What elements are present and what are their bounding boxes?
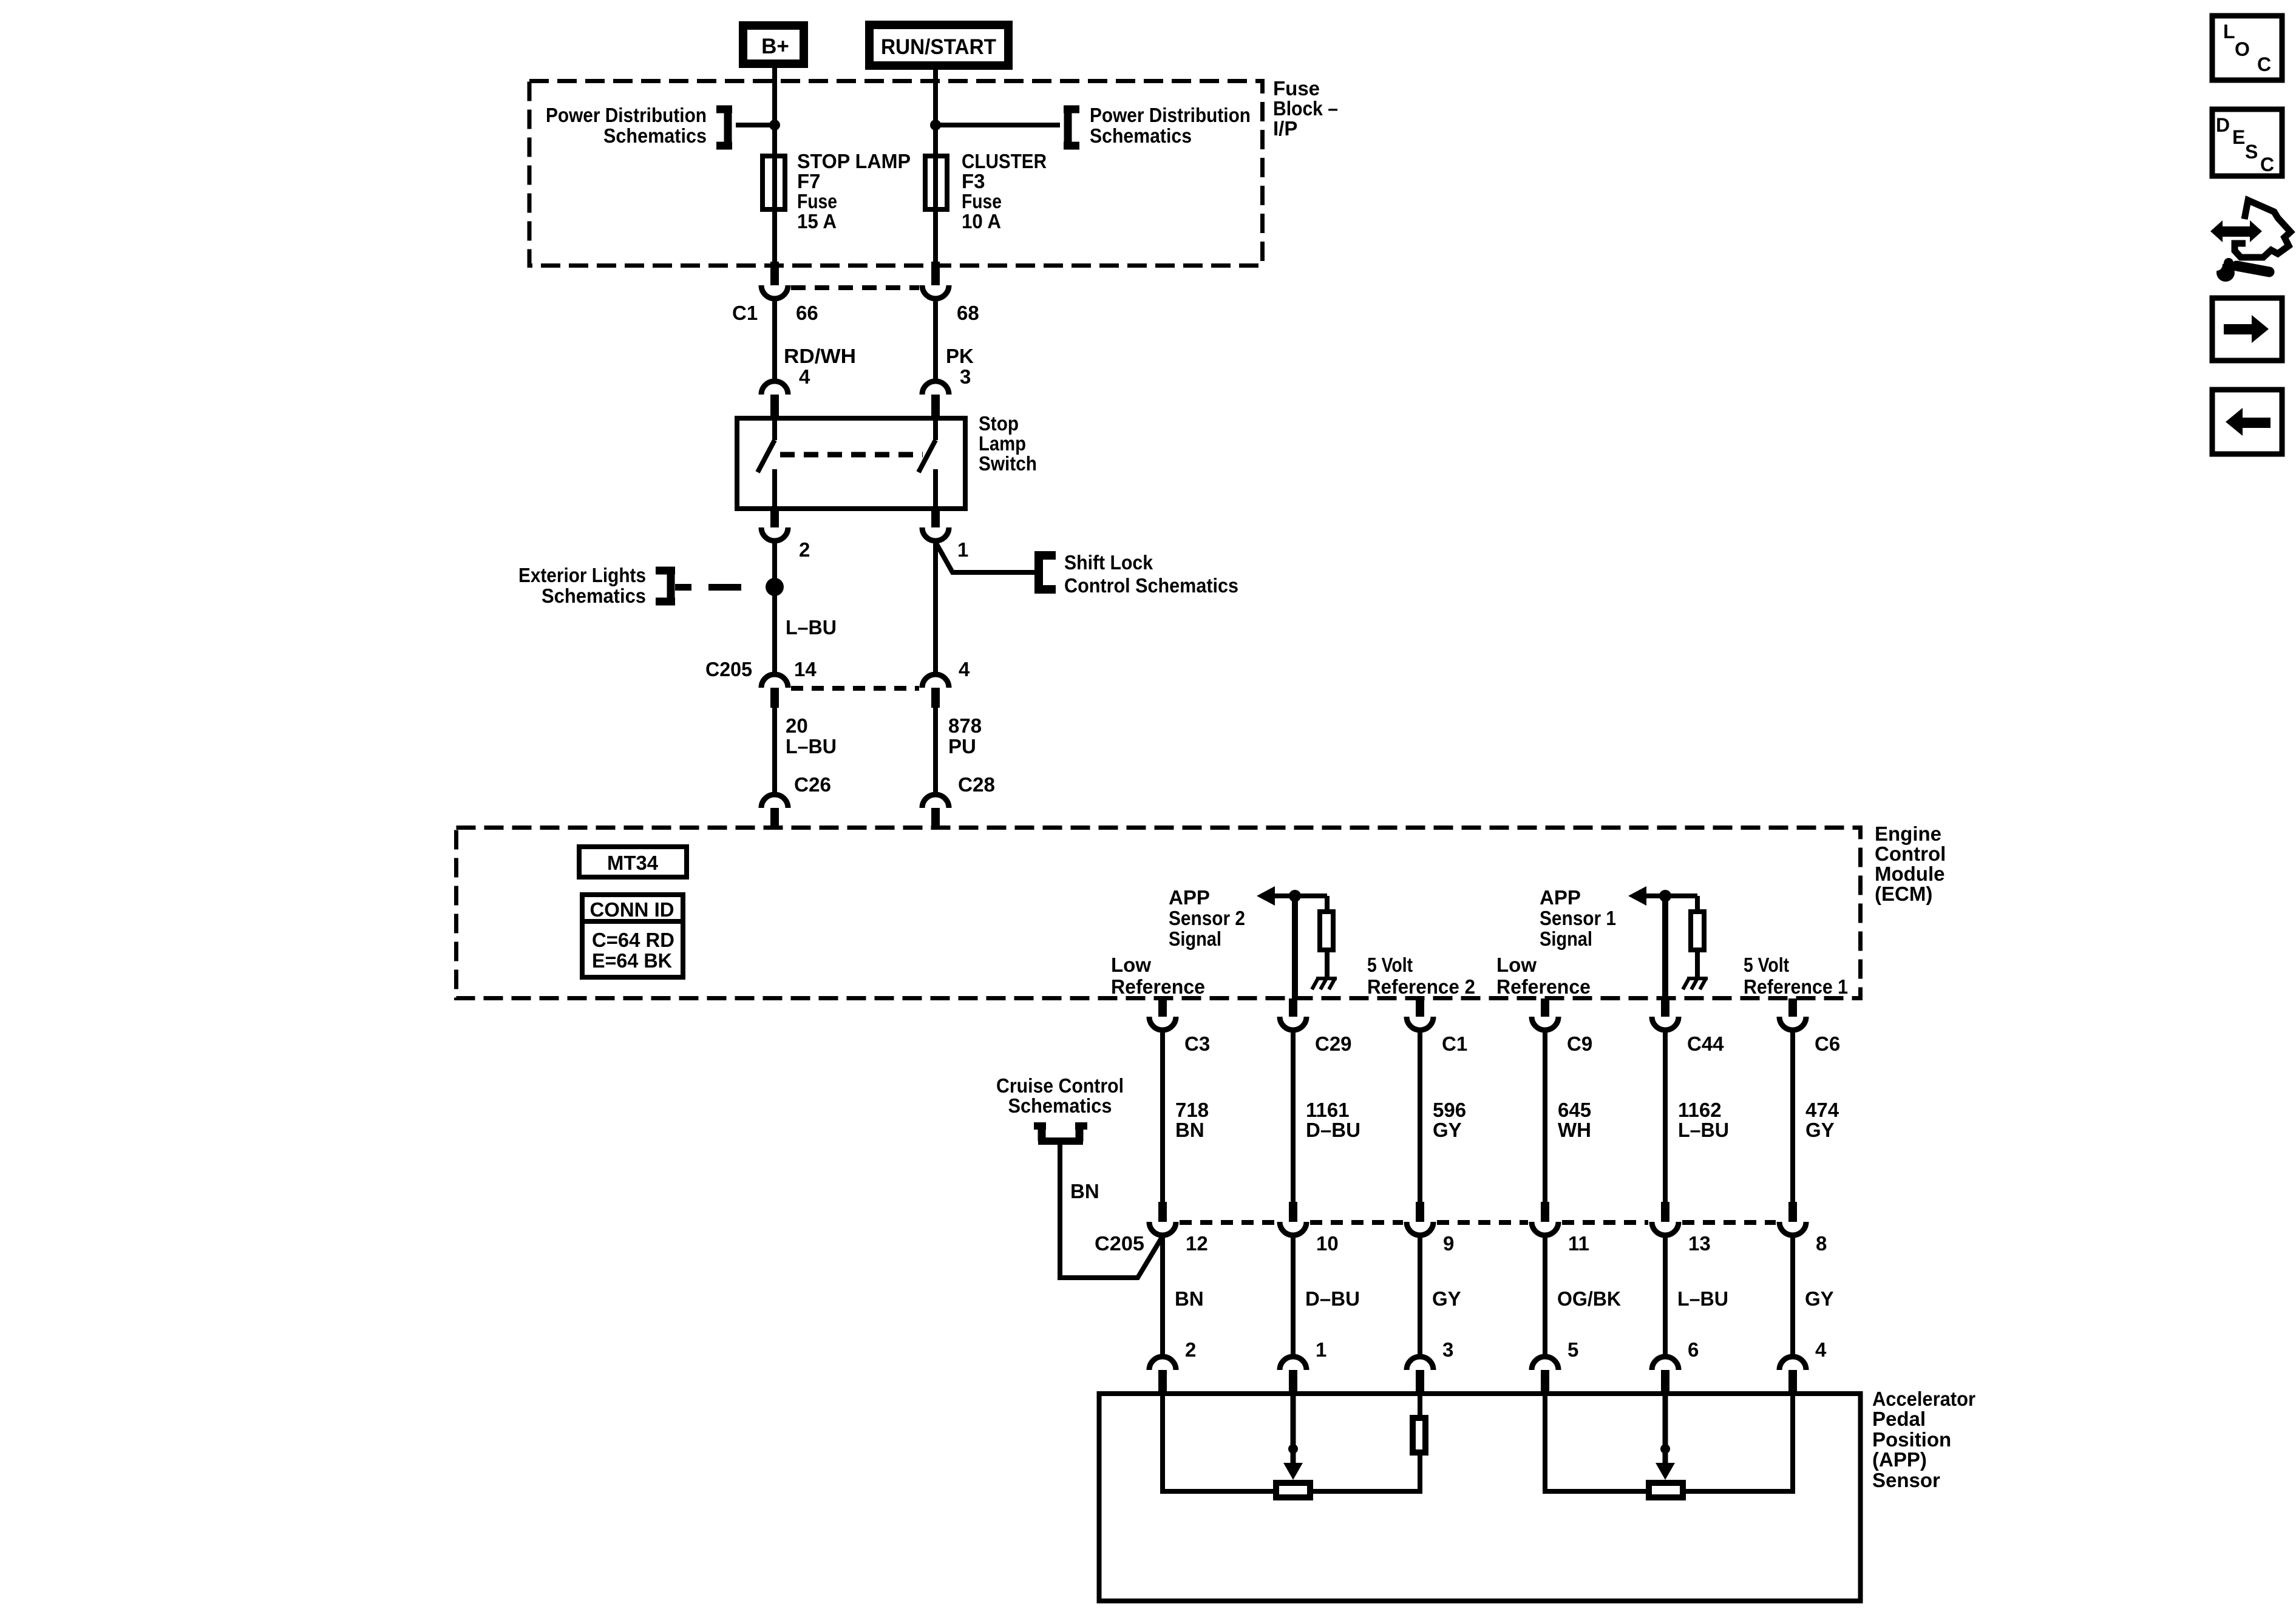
svg-text:GY: GY	[1805, 1119, 1835, 1141]
resistor APP	[1413, 1418, 1425, 1453]
connector C1 pin 66	[770, 262, 779, 285]
connector APP pin 5	[1532, 1357, 1558, 1370]
svg-text:2: 2	[1185, 1338, 1196, 1361]
svg-text:474: 474	[1805, 1099, 1839, 1121]
wire 1161 D–BU	[1291, 1030, 1296, 1204]
svg-text:Sensor 2: Sensor 2	[1169, 907, 1245, 929]
svg-text:L–BU: L–BU	[786, 616, 837, 639]
svg-text:GY: GY	[1805, 1287, 1834, 1310]
connector ECM C1	[1416, 998, 1424, 1017]
svg-text:Signal: Signal	[1540, 927, 1592, 950]
svg-text:4: 4	[799, 365, 810, 388]
svg-text:CLUSTER: CLUSTER	[962, 150, 1047, 172]
switch contact left	[772, 469, 777, 511]
wire 68 down	[933, 298, 938, 382]
wire 596 GY	[1418, 1030, 1422, 1204]
wire arrow to resistor branch	[1266, 893, 1327, 898]
wire 645 WH	[1543, 1030, 1547, 1204]
svg-text:8: 8	[1816, 1232, 1827, 1255]
connector ECM C29	[1289, 998, 1297, 1017]
wire GY to APP sensor	[1418, 1235, 1422, 1358]
connector C205 pin 9	[1416, 1202, 1424, 1222]
svg-text:F3: F3	[962, 170, 985, 192]
wiper arrow right	[1656, 1463, 1675, 1480]
svg-text:12: 12	[1186, 1232, 1208, 1255]
connector C28	[922, 795, 949, 808]
junction dot sensor 2	[1289, 890, 1301, 902]
bracket Power Distribution right	[1064, 106, 1079, 114]
svg-text:Low: Low	[1496, 954, 1537, 976]
svg-text:Fuse: Fuse	[797, 190, 837, 212]
inline connector dashed line C205 upper	[791, 686, 919, 691]
svg-text:596: 596	[1433, 1099, 1466, 1121]
arrow APP sensor 2	[1257, 886, 1275, 906]
svg-text:20: 20	[786, 714, 808, 737]
svg-text:WH: WH	[1558, 1119, 1591, 1141]
svg-text:4: 4	[1815, 1338, 1827, 1361]
svg-text:Accelerator: Accelerator	[1872, 1388, 1975, 1410]
dash line to exterior dot	[675, 584, 691, 591]
svg-text:(APP): (APP)	[1872, 1448, 1927, 1471]
connector ECM C9	[1541, 998, 1549, 1017]
svg-text:9: 9	[1443, 1232, 1454, 1255]
svg-text:D–BU: D–BU	[1305, 1287, 1360, 1310]
resistor ECM right	[1691, 912, 1704, 950]
svg-text:15 A: 15 A	[797, 210, 837, 232]
connector APP pin 4	[1779, 1357, 1806, 1370]
svg-text:Control Schematics: Control Schematics	[1064, 574, 1238, 597]
connector C205 pin 4	[922, 674, 949, 688]
svg-text:L–BU: L–BU	[786, 735, 837, 758]
junction dot sensor 1	[1659, 890, 1671, 902]
wire to shift lock	[936, 542, 1036, 572]
connector C205 pin 8	[1788, 1202, 1797, 1222]
svg-text:L–BU: L–BU	[1678, 1119, 1729, 1141]
icon hand double arrow	[2223, 226, 2250, 237]
switch blade left	[758, 440, 775, 472]
svg-text:BN: BN	[1175, 1119, 1204, 1141]
svg-text:878: 878	[948, 714, 982, 737]
junction dot left	[769, 120, 780, 131]
ground symbol right	[1687, 977, 1708, 980]
wire 66 down	[772, 298, 777, 382]
svg-text:OG/BK: OG/BK	[1557, 1287, 1621, 1310]
svg-text:Control: Control	[1875, 842, 1946, 865]
svg-text:CONN ID: CONN ID	[590, 898, 674, 921]
svg-text:C: C	[2260, 154, 2274, 175]
svg-text:11: 11	[1568, 1232, 1589, 1255]
svg-text:Schematics: Schematics	[603, 124, 707, 147]
terminal RUN/START box	[869, 25, 1008, 66]
connector ECM C3	[1158, 998, 1167, 1017]
svg-text:Fuse: Fuse	[1273, 77, 1320, 100]
svg-text:1162: 1162	[1678, 1099, 1722, 1121]
svg-text:13: 13	[1688, 1232, 1711, 1255]
wire D–BU to APP sensor	[1291, 1235, 1296, 1358]
svg-text:E: E	[2232, 126, 2245, 148]
svg-text:(ECM): (ECM)	[1875, 883, 1932, 905]
svg-text:Reference: Reference	[1111, 975, 1205, 998]
wire pin1 down	[933, 541, 938, 675]
svg-text:B+: B+	[761, 35, 789, 58]
wire APP pin2 inside	[1163, 1394, 1276, 1491]
connector C205 pin 10	[1289, 1202, 1297, 1222]
svg-text:C205: C205	[705, 658, 752, 680]
inline connector dashed segment	[1682, 1220, 1776, 1225]
svg-text:Pedal: Pedal	[1872, 1408, 1926, 1430]
stop lamp switch box	[737, 418, 965, 509]
inline connector dashed segment	[1310, 1220, 1403, 1225]
connector APP pin 3	[1407, 1357, 1433, 1370]
fuse block dashed box	[529, 81, 1263, 266]
svg-text:Reference 1: Reference 1	[1744, 975, 1848, 998]
resistor ECM left	[1320, 912, 1333, 950]
svg-text:2: 2	[799, 538, 810, 561]
icon left arrow box	[2212, 390, 2282, 454]
svg-text:STOP LAMP: STOP LAMP	[797, 150, 911, 172]
connector C26	[761, 795, 788, 808]
svg-text:718: 718	[1175, 1099, 1209, 1121]
wire 1162 L–BU	[1663, 1030, 1668, 1204]
connector C1 pin 68	[931, 262, 940, 285]
svg-text:C28: C28	[958, 773, 995, 796]
svg-text:C1: C1	[1442, 1032, 1467, 1055]
svg-text:APP: APP	[1169, 886, 1210, 909]
switch pole left wire	[772, 418, 777, 440]
svg-text:I/P: I/P	[1273, 117, 1297, 140]
svg-text:APP: APP	[1540, 886, 1581, 909]
wiper dot left	[1288, 1444, 1298, 1454]
inline connector dashed segment	[1180, 1220, 1276, 1225]
svg-text:GY: GY	[1433, 1119, 1462, 1141]
connector C205 pin 13	[1661, 1202, 1669, 1222]
wire to Power Distribution left	[736, 123, 775, 127]
junction dot right	[930, 120, 941, 131]
connector pin 2	[770, 511, 779, 527]
svg-text:D–BU: D–BU	[1306, 1119, 1360, 1141]
icon right arrow box	[2212, 298, 2282, 361]
svg-text:GY: GY	[1432, 1287, 1461, 1310]
svg-text:C44: C44	[1687, 1032, 1724, 1055]
svg-text:3: 3	[960, 365, 971, 388]
connector ECM C44	[1661, 998, 1669, 1017]
wire resistor to ground left	[1325, 950, 1330, 978]
wire L–BU to APP sensor	[1663, 1235, 1668, 1358]
ECM dashed box	[457, 828, 1861, 998]
connector APP pin 1	[1280, 1357, 1306, 1370]
icon hand outline	[2235, 200, 2291, 257]
wire resistor down	[1418, 1453, 1422, 1494]
wire F7 to connector C1-66	[772, 209, 777, 265]
svg-text:4: 4	[959, 658, 970, 680]
svg-text:BN: BN	[1175, 1287, 1204, 1310]
svg-text:Lamp: Lamp	[979, 432, 1026, 455]
svg-text:1: 1	[957, 538, 968, 561]
wiper arrow left	[1283, 1463, 1303, 1480]
svg-text:MT34: MT34	[607, 852, 659, 874]
svg-text:RD/WH: RD/WH	[784, 345, 856, 367]
wire BN to APP sensor	[1160, 1235, 1165, 1358]
inline connector dashed segment	[1562, 1220, 1648, 1225]
connector C205 pin 12	[1158, 1202, 1167, 1222]
svg-text:C3: C3	[1184, 1032, 1210, 1055]
svg-text:3: 3	[1442, 1338, 1453, 1361]
terminal B+ box	[743, 25, 804, 64]
icon LOC box	[2212, 16, 2282, 80]
wire B+ down to fuse F7	[772, 68, 777, 156]
wire F3 to connector C1-68	[933, 209, 938, 265]
inline connector dashed segment	[1437, 1220, 1528, 1225]
switch pole right wire	[933, 418, 938, 440]
svg-text:E=64 BK: E=64 BK	[592, 949, 672, 972]
svg-text:Schematics: Schematics	[1008, 1094, 1112, 1117]
svg-text:RUN/START: RUN/START	[881, 35, 996, 59]
svg-text:L: L	[2223, 21, 2235, 42]
wire arrow to resistor branch right	[1637, 893, 1697, 898]
wire APP pin5 inside	[1545, 1394, 1649, 1491]
svg-text:Position: Position	[1872, 1428, 1951, 1451]
fuse F7	[763, 156, 785, 209]
connector pin 1	[931, 511, 940, 527]
bracket Power Distribution left	[716, 106, 732, 114]
icon wrench	[2237, 266, 2269, 272]
svg-text:Stop: Stop	[979, 412, 1019, 435]
svg-text:C205: C205	[1095, 1232, 1144, 1255]
arrow APP sensor 1	[1628, 886, 1646, 906]
svg-text:Schematics: Schematics	[1090, 124, 1192, 147]
svg-text:PK: PK	[946, 345, 974, 367]
wire RUN/START down to fuse F3	[933, 70, 938, 156]
icon DESC box	[2212, 109, 2282, 176]
connector pin 4 switch	[761, 381, 788, 395]
wire APP pin3 inside	[1418, 1394, 1422, 1420]
connector ECM C6	[1788, 998, 1797, 1017]
svg-text:C29: C29	[1315, 1032, 1352, 1055]
svg-text:O: O	[2235, 38, 2250, 60]
svg-text:BN: BN	[1070, 1180, 1099, 1202]
bracket Shift Lock	[1034, 551, 1056, 560]
svg-text:1: 1	[1316, 1338, 1326, 1361]
svg-text:Shift Lock: Shift Lock	[1064, 551, 1153, 574]
svg-text:5: 5	[1567, 1338, 1578, 1361]
svg-text:L–BU: L–BU	[1677, 1287, 1728, 1310]
svg-text:5 Volt: 5 Volt	[1367, 954, 1413, 976]
bracket Cruise Control	[1034, 1122, 1046, 1130]
svg-text:PU: PU	[948, 735, 976, 758]
junction dot exterior lights	[766, 578, 784, 596]
wire sensor2 signal down	[1292, 896, 1298, 1000]
svg-text:C6: C6	[1815, 1032, 1840, 1055]
svg-text:10: 10	[1316, 1232, 1339, 1255]
switch dashed link	[780, 452, 923, 458]
wire 20 L-BU	[772, 708, 777, 795]
wire OG/BK to APP sensor	[1543, 1235, 1547, 1358]
connector APP pin 6	[1652, 1357, 1679, 1370]
svg-text:D: D	[2216, 114, 2230, 136]
ground symbol left	[1316, 977, 1337, 980]
wire pin2 down	[772, 541, 777, 675]
switch contact right	[933, 469, 938, 511]
fuse F3	[925, 156, 947, 209]
switch blade right	[919, 440, 936, 472]
wire GY to APP sensor	[1790, 1235, 1795, 1358]
svg-text:5 Volt: 5 Volt	[1744, 954, 1789, 976]
svg-text:S: S	[2245, 141, 2258, 163]
svg-text:C: C	[2257, 53, 2271, 75]
svg-text:C=64 RD: C=64 RD	[592, 929, 674, 951]
connector C205 pin 14	[761, 674, 788, 688]
wire cruise control to C205	[1060, 1145, 1163, 1278]
svg-text:68: 68	[957, 302, 979, 324]
svg-text:645: 645	[1558, 1099, 1591, 1121]
potentiometer right	[1649, 1483, 1683, 1497]
svg-text:C1: C1	[732, 302, 758, 324]
inline connector dashed line C1	[791, 285, 919, 290]
svg-text:F7: F7	[797, 170, 821, 192]
wire pot to resistor wire	[1310, 1489, 1420, 1494]
svg-text:10 A: 10 A	[962, 210, 1001, 232]
wire pot right to pin4	[1683, 1394, 1793, 1491]
MT34 box	[579, 847, 687, 877]
svg-text:Power Distribution: Power Distribution	[1090, 104, 1251, 126]
resistor ECM right branch wire	[1695, 896, 1700, 914]
CONN ID box	[582, 895, 683, 977]
wire to Power Distribution right	[936, 123, 1060, 127]
wire sensor1 signal down	[1662, 896, 1668, 1000]
wire resistor to ground right	[1695, 950, 1700, 978]
svg-text:Module: Module	[1875, 863, 1944, 885]
wire 718 BN	[1160, 1030, 1165, 1204]
svg-text:1161: 1161	[1306, 1099, 1350, 1121]
resistor ECM left branch wire	[1325, 896, 1330, 914]
potentiometer left	[1276, 1483, 1310, 1497]
svg-text:Fuse: Fuse	[962, 190, 1002, 212]
svg-text:14: 14	[794, 658, 817, 680]
svg-text:Schematics: Schematics	[542, 585, 646, 607]
svg-text:Cruise Control: Cruise Control	[996, 1074, 1124, 1097]
svg-text:Block –: Block –	[1273, 97, 1338, 120]
svg-text:Switch: Switch	[979, 452, 1037, 475]
connector pin 3 switch	[922, 381, 949, 395]
wiper dot right	[1660, 1444, 1670, 1454]
svg-text:66: 66	[796, 302, 818, 324]
wiper wire right	[1663, 1394, 1668, 1466]
connector C205 pin 11	[1541, 1202, 1549, 1222]
svg-text:6: 6	[1688, 1338, 1699, 1361]
connector APP pin 2	[1149, 1357, 1176, 1370]
wire 878 PU	[933, 708, 938, 795]
APP sensor box	[1099, 1394, 1861, 1601]
svg-text:C26: C26	[794, 773, 831, 796]
wire 474 GY	[1790, 1030, 1795, 1204]
svg-text:Sensor: Sensor	[1872, 1469, 1940, 1491]
bracket Exterior Lights	[656, 567, 675, 575]
svg-text:C9: C9	[1567, 1032, 1592, 1055]
svg-text:Reference 2: Reference 2	[1367, 975, 1475, 998]
svg-text:Signal: Signal	[1169, 927, 1221, 950]
svg-text:Engine: Engine	[1875, 822, 1941, 845]
svg-text:Reference: Reference	[1496, 975, 1591, 998]
wiper wire left	[1291, 1394, 1296, 1466]
svg-text:Low: Low	[1111, 954, 1151, 976]
svg-text:Power Distribution: Power Distribution	[546, 104, 707, 126]
svg-text:Exterior Lights: Exterior Lights	[518, 564, 646, 586]
svg-text:Sensor 1: Sensor 1	[1540, 907, 1616, 929]
